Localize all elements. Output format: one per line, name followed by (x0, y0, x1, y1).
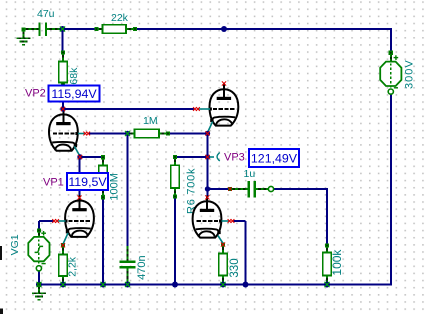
label VP2 (25, 88, 46, 100)
wire tube U1 cathode node to 100M top (80, 156, 103, 158)
wire node VP3 to R6 top (175, 156, 208, 158)
svg-text:22k: 22k (111, 12, 129, 24)
capacitor 1u (228, 168, 274, 197)
voltage meter box VP2 value (49, 86, 100, 102)
label VP3 (224, 152, 245, 164)
svg-text:VP1: VP1 (43, 177, 64, 189)
wire tube U4 grid to ground rail (233, 221, 246, 285)
rail junction U4 grid wire (243, 282, 249, 288)
voltage pin VP3 arrow (210, 153, 220, 161)
wire 1u cap right to 100k top (271, 188, 327, 246)
wire R6 bottom to ground rail (174, 197, 176, 285)
pin U2 grid (193, 107, 200, 111)
resistor 68k (59, 50, 80, 86)
rail junction 100k (324, 282, 330, 288)
capacitor 470n (120, 246, 149, 284)
resistor 330 (219, 243, 241, 287)
resistor 22k (94, 12, 137, 33)
voltage meter box VP3 value (249, 149, 299, 167)
pin 1u left (228, 187, 232, 191)
svg-text:470n: 470n (136, 255, 148, 279)
pin U1 grid (83, 132, 90, 136)
node VP3 junction (205, 154, 210, 159)
capacitor 47u (24, 8, 63, 36)
node U1 plate (60, 106, 65, 111)
node J1 (47u / 22k / 68k) (60, 26, 66, 32)
wire tube U3 grid to VG1 (39, 221, 54, 230)
ground (bottom left) (32, 282, 46, 299)
node U1 cathode junction (77, 154, 82, 159)
pin U4 plate (205, 195, 209, 199)
wire 1M right pin to node B (168, 133, 208, 135)
pin U3 plate (77, 196, 81, 200)
ground rail (bottom) (36, 284, 392, 286)
label VP1 (43, 177, 64, 189)
wire 300V bottom down right side (390, 94, 392, 285)
node A (grid / 1M / 470n) (125, 131, 130, 136)
wire VG1 bottom to ground rail (38, 270, 40, 285)
pin 2,2k top (61, 243, 65, 247)
triode U3 (lower left) (58, 195, 94, 244)
pin 330 top (221, 243, 225, 247)
node U4 plate junction (205, 186, 210, 191)
svg-text:1M: 1M (143, 115, 158, 127)
rail junction 100M (100, 282, 106, 288)
pin U2 plate (222, 81, 226, 85)
pin U3 grid (52, 219, 59, 223)
resistor 2,2k (59, 243, 79, 286)
pin U4 grid (228, 219, 235, 223)
rail junction R6 (172, 282, 178, 288)
window edge artifact (left) (0, 246, 3, 314)
wire node A down to 470n (127, 134, 129, 247)
svg-text:115,94V: 115,94V (51, 87, 97, 101)
voltage generator VG1 (9, 228, 50, 271)
wire top rail from junction to 22k and to top-right corner (63, 28, 392, 53)
svg-text:VG1: VG1 (9, 234, 21, 255)
resistor R6 700k (171, 155, 198, 214)
svg-text:100k: 100k (330, 249, 344, 276)
wire 68k bottom to tube U1 plate node (62, 84, 64, 109)
wire tube U1 plate node to tube U2 grid (63, 108, 194, 110)
svg-text:330: 330 (229, 258, 241, 277)
rail junction 2,2k (60, 282, 66, 288)
wire 100M bottom to ground rail (102, 197, 104, 285)
wire node VP3 down to tube U4 plate (207, 157, 209, 198)
svg-text:VP2: VP2 (25, 88, 46, 100)
rail junction VG1 (36, 282, 42, 288)
svg-text:47u: 47u (37, 8, 55, 20)
resistor 100M (99, 155, 121, 200)
svg-text:119,5V: 119,5V (68, 175, 107, 189)
svg-text:121,49V: 121,49V (251, 151, 298, 165)
resistor 1M (125, 115, 170, 138)
svg-text:68k: 68k (68, 67, 80, 85)
ground (top left) (16, 27, 30, 44)
node B (1M / U2 cathode) (205, 131, 210, 136)
wire tube U1 grid to node A (89, 133, 128, 135)
wire tube U4 plate node to 1u cap (208, 188, 231, 190)
rail junction 330 (220, 282, 226, 288)
voltage meter box VP1 value (67, 173, 108, 190)
triode U1 (upper left) (49, 109, 85, 156)
svg-text:VP3: VP3 (224, 152, 245, 164)
svg-text:1u: 1u (244, 168, 256, 180)
rail junction 470n (125, 282, 131, 288)
wire cathode node down to tube U3 plate (79, 157, 81, 198)
svg-text:300V: 300V (403, 59, 415, 89)
wire junction J1 down to 68k (62, 29, 64, 53)
resistor 100k (323, 243, 344, 286)
svg-text:2,2k: 2,2k (67, 256, 79, 277)
triode U2 (upper right) (199, 84, 239, 132)
node J2 (22k / U2 plate) (221, 26, 227, 32)
svg-text:100M: 100M (109, 173, 121, 201)
voltage source 300V (380, 51, 415, 94)
triode U4 (lower right) (193, 196, 229, 243)
wire node B down to node VP3 (207, 134, 209, 158)
